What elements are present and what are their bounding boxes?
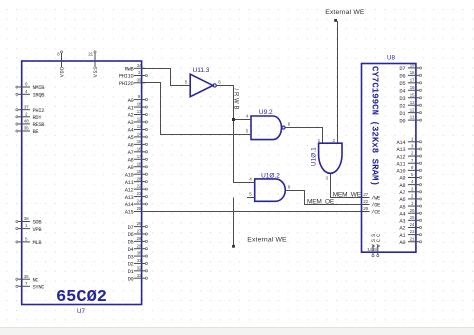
svg-text:VDD: VDD	[60, 66, 66, 77]
svg-text:4: 4	[249, 176, 252, 182]
svg-text:A12: A12	[125, 187, 134, 193]
svg-text:30: 30	[136, 251, 141, 257]
svg-text:10: 10	[136, 102, 141, 108]
svg-text:3: 3	[325, 175, 328, 181]
svg-text:A13: A13	[396, 147, 405, 153]
svg-text:U7: U7	[77, 308, 85, 315]
svg-text:A10: A10	[125, 172, 134, 178]
svg-text:A2: A2	[128, 113, 134, 119]
svg-text:A9: A9	[128, 165, 134, 171]
svg-text:D0: D0	[399, 118, 405, 124]
svg-text:PHI2O: PHI2O	[119, 81, 134, 87]
svg-text:NMIB: NMIB	[33, 85, 46, 91]
svg-text:5: 5	[246, 128, 249, 134]
svg-text:19: 19	[410, 63, 415, 69]
svg-text:D7: D7	[128, 225, 134, 231]
svg-text:20: 20	[363, 206, 368, 212]
svg-text:37: 37	[24, 104, 29, 110]
svg-text:A7: A7	[399, 190, 405, 196]
svg-text:U9.2: U9.2	[259, 109, 273, 116]
svg-text:6: 6	[288, 122, 291, 128]
svg-text:27: 27	[363, 192, 368, 198]
svg-text:35: 35	[24, 274, 29, 280]
svg-text:CY7C199CN (32Kx8 SRAM): CY7C199CN (32Kx8 SRAM)	[370, 66, 380, 186]
svg-text:12: 12	[410, 107, 415, 113]
svg-text:26: 26	[136, 221, 141, 227]
svg-text:D6: D6	[128, 232, 134, 238]
svg-text:65CØ2: 65CØ2	[56, 288, 107, 307]
svg-text:23: 23	[136, 191, 141, 197]
svg-text:D4: D4	[399, 88, 405, 94]
svg-text:28: 28	[136, 236, 141, 242]
svg-text:24: 24	[410, 222, 415, 228]
svg-text:External WE: External WE	[247, 237, 287, 244]
svg-text:5: 5	[249, 191, 252, 197]
svg-text:/CE: /CE	[371, 210, 380, 216]
svg-text:5: 5	[185, 79, 188, 85]
svg-text:2: 2	[332, 138, 335, 144]
svg-text:13: 13	[410, 100, 415, 106]
svg-text:11: 11	[410, 115, 415, 121]
svg-text:21: 21	[410, 236, 415, 242]
svg-text:29: 29	[136, 243, 141, 249]
svg-text:A8: A8	[128, 157, 134, 163]
svg-text:RESB: RESB	[33, 122, 46, 128]
svg-text:/RWB: /RWB	[232, 89, 238, 112]
svg-text:A11: A11	[125, 180, 134, 186]
svg-text:D2: D2	[128, 262, 134, 268]
svg-text:MEM_OE: MEM_OE	[307, 199, 335, 206]
svg-text:D3: D3	[128, 254, 134, 260]
svg-text:31: 31	[136, 258, 141, 264]
svg-text:D5: D5	[399, 81, 405, 87]
svg-text:U11.3: U11.3	[193, 67, 210, 74]
svg-text:RWB: RWB	[125, 67, 135, 73]
svg-text:A2: A2	[399, 226, 405, 232]
svg-text:6: 6	[218, 79, 221, 85]
svg-text:A8: A8	[399, 183, 405, 189]
svg-text:VCC: VCC	[376, 232, 382, 248]
svg-text:A13: A13	[125, 195, 134, 201]
svg-text:A7: A7	[128, 150, 134, 156]
svg-text:15: 15	[136, 139, 141, 145]
svg-text:4: 4	[246, 113, 249, 119]
svg-text:A0: A0	[128, 98, 134, 104]
svg-text:A11: A11	[396, 161, 405, 167]
svg-text:A14: A14	[125, 202, 134, 208]
svg-text:U1Ø.2: U1Ø.2	[261, 172, 280, 179]
svg-text:38: 38	[24, 216, 29, 222]
svg-text:NC: NC	[33, 277, 39, 283]
svg-text:/WE: /WE	[371, 196, 380, 202]
svg-text:22: 22	[363, 199, 368, 205]
svg-text:A6: A6	[128, 143, 134, 149]
svg-text:A15: A15	[125, 210, 134, 216]
svg-text:18: 18	[410, 70, 415, 76]
svg-text:A12: A12	[396, 154, 405, 160]
svg-text:D4: D4	[128, 247, 134, 253]
svg-text:A6: A6	[399, 197, 405, 203]
svg-text:13: 13	[136, 124, 141, 130]
svg-text:IRQB: IRQB	[33, 93, 46, 99]
svg-text:25: 25	[410, 215, 415, 221]
svg-text:20: 20	[136, 176, 141, 182]
svg-text:BE: BE	[33, 129, 39, 135]
svg-text:MLB: MLB	[33, 240, 43, 246]
svg-text:A1: A1	[399, 233, 405, 239]
svg-text:24: 24	[136, 199, 141, 205]
svg-text:36: 36	[24, 126, 29, 132]
svg-text:16: 16	[136, 146, 141, 152]
svg-text:14: 14	[136, 132, 141, 138]
svg-text:SOB: SOB	[33, 220, 43, 226]
svg-text:A5: A5	[128, 135, 134, 141]
svg-text:21: 21	[88, 51, 93, 57]
svg-text:U1Ø.1: U1Ø.1	[310, 147, 317, 166]
svg-text:D0: D0	[128, 276, 134, 282]
svg-text:19: 19	[136, 169, 141, 175]
svg-text:27: 27	[136, 229, 141, 235]
svg-text:A3: A3	[399, 219, 405, 225]
svg-text:PHI1O: PHI1O	[119, 74, 134, 80]
svg-text:17: 17	[136, 154, 141, 160]
svg-text:D3: D3	[399, 96, 405, 102]
svg-text:SYNC: SYNC	[33, 285, 45, 291]
svg-text:RDY: RDY	[33, 115, 43, 121]
svg-text:A3: A3	[128, 120, 134, 126]
svg-text:26: 26	[410, 208, 415, 214]
svg-text:VSS: VSS	[93, 66, 99, 77]
svg-text:D6: D6	[399, 74, 405, 80]
svg-text:22: 22	[136, 184, 141, 190]
svg-text:A14: A14	[396, 140, 405, 146]
svg-text:VPB: VPB	[33, 227, 43, 233]
svg-text:16: 16	[410, 85, 415, 91]
svg-text:23: 23	[410, 229, 415, 235]
svg-text:32: 32	[136, 265, 141, 271]
svg-text:6: 6	[288, 184, 291, 190]
svg-text:A4: A4	[128, 128, 134, 134]
svg-text:External WE: External WE	[325, 9, 365, 16]
svg-text:A1: A1	[128, 105, 134, 111]
svg-text:40: 40	[24, 119, 29, 125]
svg-text:D1: D1	[128, 269, 134, 275]
svg-text:1: 1	[318, 138, 321, 144]
svg-text:11: 11	[136, 109, 141, 115]
svg-text:A0: A0	[399, 240, 405, 246]
svg-text:34: 34	[136, 63, 141, 69]
svg-text:U8: U8	[387, 55, 395, 62]
svg-text:A9: A9	[399, 176, 405, 182]
svg-text:39: 39	[136, 77, 141, 83]
svg-text:D5: D5	[128, 240, 134, 246]
svg-text:17: 17	[410, 77, 415, 83]
svg-text:D7: D7	[399, 66, 405, 72]
svg-text:D1: D1	[399, 111, 405, 117]
svg-text:25: 25	[136, 206, 141, 212]
svg-text:/OE: /OE	[371, 203, 380, 209]
svg-text:33: 33	[136, 273, 141, 279]
svg-text:A4: A4	[399, 211, 405, 217]
svg-text:A10: A10	[396, 169, 405, 175]
svg-text:MEM_WE: MEM_WE	[333, 192, 362, 199]
svg-text:15: 15	[410, 92, 415, 98]
svg-text:A5: A5	[399, 204, 405, 210]
svg-text:12: 12	[136, 117, 141, 123]
svg-text:18: 18	[136, 161, 141, 167]
svg-text:PHI2: PHI2	[33, 108, 45, 114]
svg-text:D2: D2	[399, 103, 405, 109]
